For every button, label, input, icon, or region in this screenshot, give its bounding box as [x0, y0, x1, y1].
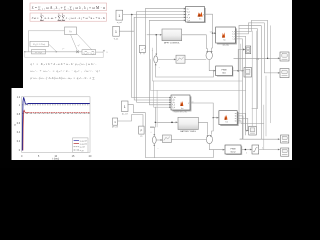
U3 input arrowheads: [169, 97, 171, 108]
x tick labels: [21, 155, 92, 158]
inport block In3: [122, 101, 129, 115]
U2 out wire 4: [235, 39, 242, 139]
PV measure block: [139, 46, 145, 55]
svg-text:μ·ωₐ₋(ωₐ₋)·Δₐʦ(ωₐʦ)ωₐ₋ωₚ = q: μ·ωₐ₋(ωₐ₋)·Δₐʦ(ωₐʦ)ωₐ₋ωₚ = qₚ¹ₐ ⁄σ₋ λ ∑: [31, 76, 95, 80]
leader line mid: [71, 35, 78, 51]
svg-text:2: 2: [246, 152, 247, 154]
leader line right: [77, 34, 93, 51]
wire F to H: [259, 148, 280, 151]
block 1/Js: [65, 27, 77, 35]
scope block B1: [244, 68, 252, 78]
legend box: [73, 138, 89, 152]
reference dashdot black line 2: [22, 112, 90, 114]
svg-text:aᵢλᵢωᵢ+: aᵢλᵢωᵢ+: [45, 16, 57, 20]
svg-text:w_ref: w_ref: [117, 22, 122, 24]
sum junction S4: [206, 135, 212, 144]
scope block A1: [245, 46, 250, 54]
MATLAB function block U4: [219, 111, 239, 126]
svg-text:T_m: T_m: [187, 20, 191, 22]
wire In1 to U1: [123, 14, 186, 16]
sum junction S2: [206, 51, 212, 60]
wire PWM1 out: [232, 70, 243, 72]
svg-text:P_b: P_b: [172, 104, 175, 106]
U2 out wire 1: [235, 20, 267, 58]
svg-text:i=1: i=1: [40, 20, 42, 22]
svg-text:V_d: V_d: [187, 11, 190, 13]
feedback path left: [28, 31, 64, 52]
left letterbox bar bottom: [0, 88, 12, 160]
branch to scope A1: [238, 49, 245, 71]
inport block In2: [113, 26, 120, 40]
bus wire v1: [132, 15, 171, 98]
svg-text:sn: sn: [235, 121, 237, 123]
svg-text:s: s: [107, 51, 108, 54]
display block C: [280, 52, 289, 61]
svg-text:BATTERY CHRG: BATTERY CHRG: [180, 130, 196, 133]
svg-text:Q_b: Q_b: [172, 107, 175, 109]
U2 out wire 2: [235, 23, 279, 74]
PI controller block bottom: [163, 135, 172, 143]
bus wire v3: [137, 12, 171, 103]
svg-text:0.4: 0.4: [17, 131, 21, 134]
multiply junction: [76, 51, 79, 54]
battery feed wire: [155, 107, 177, 123]
right letterbox bar: [292, 0, 300, 168]
saturation block F: [252, 145, 259, 154]
feedback loop top subsystem: [156, 71, 214, 77]
svg-text:fcn: fcn: [226, 121, 228, 123]
cross wire c1: [151, 59, 246, 90]
svg-text:dc_ref: dc_ref: [122, 113, 128, 115]
svg-text:INVERTER CTRL: INVERTER CTRL: [174, 112, 187, 114]
svg-text:q¹ = Kₚvʦ+Δₐωʦ+ωₐʦ·μₚ(ωₐ)ωʦ⁄₋: q¹ = Kₚvʦ+Δₐωʦ+ωₐʦ·μₚ(ωₐ)ωʦ⁄₋: [31, 62, 97, 66]
cross wire c2: [153, 48, 243, 107]
display block D: [280, 69, 289, 78]
svg-text:Gen: Gen: [222, 73, 226, 75]
PWM generator block top: [216, 66, 234, 77]
svg-text:fcn: fcn: [199, 18, 201, 20]
red response curve: [23, 110, 90, 150]
U2 out wire 3: [235, 36, 248, 130]
svg-text:ω_ref: ω_ref: [80, 146, 85, 149]
MPPT output wire: [182, 35, 208, 51]
svg-text:PWM: PWM: [222, 70, 227, 72]
MATLAB function block U2: [216, 27, 237, 44]
cross wire c3: [144, 35, 145, 48]
svg-text:278: 278: [256, 59, 259, 61]
svg-text:dP_ref: dP_ref: [112, 127, 118, 129]
wire into display C: [234, 57, 280, 59]
wire PI1 to S2: [185, 58, 206, 60]
U1 input wires: [134, 9, 185, 21]
display block G: [281, 135, 289, 143]
y tick labels: [17, 96, 21, 152]
svg-text:w_r: w_r: [187, 7, 190, 10]
wire S2 to PWM1: [209, 60, 215, 72]
U2 label: [210, 31, 229, 46]
label v*: [62, 48, 65, 51]
bus wire v2: [134, 17, 170, 100]
wire S3 to PI2: [157, 139, 163, 141]
MPPT gradient block: [162, 29, 182, 44]
svg-text:v_c: v_c: [232, 36, 235, 38]
svg-text:fcn: fcn: [223, 39, 225, 41]
equation box 1: [30, 3, 107, 11]
P measure block bottom: [139, 126, 144, 138]
battery output wire: [198, 122, 207, 134]
svg-text:i_ld: i_ld: [171, 100, 174, 102]
bus wire v4: [144, 9, 146, 35]
svg-text:PWM: PWM: [231, 148, 236, 150]
label q*: [78, 44, 81, 47]
handwritten equation line 1: [31, 62, 97, 66]
handwritten equation line 3: [31, 76, 95, 80]
left letterbox bar top: [0, 0, 23, 88]
wire In3 to bus: [128, 105, 145, 131]
bottom letterbox bar: [0, 160, 300, 168]
U4 out wires: [237, 113, 264, 139]
bus wire r4: [251, 31, 253, 126]
svg-text:fcn: fcn: [181, 108, 183, 110]
y axis label: [14, 123, 16, 127]
svg-text:0.8: 0.8: [17, 113, 21, 116]
plot axes box: [22, 97, 91, 153]
U3 output wire: [190, 103, 219, 134]
svg-text:j=1: j=1: [60, 20, 63, 22]
feedback loop bottom subsystem: [154, 150, 213, 158]
MATLAB function block U1: [186, 7, 206, 23]
svg-text:sa: sa: [235, 113, 237, 115]
controller block upper: [30, 41, 49, 46]
bus wire r3: [238, 26, 240, 124]
svg-text:v_b: v_b: [232, 34, 235, 36]
filter block: [82, 50, 96, 55]
svg-text:MPPT CONTROL: MPPT CONTROL: [164, 42, 181, 44]
svg-text:i=1: i=1: [57, 20, 59, 22]
svg-text:2: 2: [262, 148, 263, 150]
blue response curve: [22, 97, 90, 150]
svg-text:th_p: th_p: [187, 16, 190, 19]
bus wire v5: [150, 20, 171, 105]
x axis label: [52, 158, 59, 161]
svg-text:i_d: i_d: [232, 39, 235, 41]
output wire + arrow: [96, 50, 108, 54]
wire In4 to bus: [118, 115, 143, 127]
bus wire r1: [239, 26, 261, 140]
wire to G: [240, 138, 280, 140]
bus vertical extra 3: [270, 26, 272, 123]
svg-text:v_a: v_a: [232, 31, 235, 33]
svg-text:Kᵢ+Kₚs: Kᵢ+Kₚs: [35, 52, 42, 54]
svg-text:ω_g_est: ω_g_est: [80, 143, 88, 146]
svg-text:0.2: 0.2: [17, 140, 21, 143]
svg-text:J·ω̇ =: J·ω̇ =: [32, 16, 39, 20]
wire label 278: [256, 59, 259, 61]
svg-text:1: 1: [115, 30, 117, 34]
svg-text:1: 1: [124, 105, 126, 109]
svg-text:ω_g_ref: ω_g_ref: [80, 139, 87, 142]
svg-text:ω: ω: [14, 123, 16, 127]
main wire: [24, 51, 82, 53]
bus wire r2: [239, 29, 257, 109]
svg-text:1: 1: [118, 14, 120, 18]
svg-text:P: P: [141, 129, 143, 133]
sum junction S3: [150, 122, 159, 158]
wire PI2 to S4: [171, 138, 206, 140]
display block H: [281, 148, 289, 156]
svg-text:V_dc: V_dc: [172, 97, 176, 99]
U1 input arrowheads: [184, 8, 186, 21]
wire S4 to PWM2: [209, 144, 224, 151]
wire In2 branch: [119, 17, 134, 31]
wire S1 to PI1: [158, 59, 176, 61]
bus vertical bottom pair: [156, 91, 158, 128]
svg-text:Kₚ(1+1/Tₙs): Kₚ(1+1/Tₙs): [33, 43, 45, 46]
svg-text:i_qs: i_qs: [186, 14, 190, 16]
svg-text:i_lq: i_lq: [171, 102, 174, 104]
controller block lower: [32, 50, 46, 55]
MPPT feed wire: [147, 34, 162, 36]
feedback wire: [25, 52, 103, 58]
inport block In1: [116, 10, 123, 24]
inport block In4: [112, 118, 118, 129]
wire upper block to junction: [49, 44, 57, 52]
svg-text:sc: sc: [235, 118, 237, 120]
left drop wire bottom: [145, 131, 154, 158]
PWM generator block bottom: [225, 145, 242, 155]
scope block E: [249, 126, 257, 135]
bus vertical extra 1: [240, 44, 242, 71]
svg-text:cᵢⱼωλᵢλⱼ+ω²uₖ+uₐʦ: cᵢⱼωλᵢλⱼ+ω²uₖ+uₐʦ: [66, 16, 105, 20]
svg-text:abc2dq: abc2dq: [223, 45, 229, 47]
handwritten equation line 2: [31, 69, 100, 74]
wire into scope E: [246, 130, 248, 132]
bus wire r5: [255, 31, 257, 126]
MATLAB function block U3: [171, 95, 194, 114]
svg-text:ω_g: ω_g: [80, 150, 84, 152]
svg-text:0.6: 0.6: [17, 122, 21, 125]
svg-text:sb: sb: [235, 116, 237, 118]
PI controller block top: [176, 55, 185, 63]
battery gradient block: [178, 117, 198, 133]
U1 output wire: [205, 14, 216, 51]
bus wire r6: [263, 105, 265, 150]
wire PWM2 out: [241, 149, 252, 155]
svg-text:1.2: 1.2: [17, 96, 21, 99]
bus vertical extra 2: [265, 76, 267, 136]
background canvas: [0, 0, 300, 168]
svg-text:V_dc: V_dc: [114, 38, 119, 40]
sum junction S1: [152, 35, 161, 77]
equation box 2: [30, 13, 107, 22]
reference dashed black line 1: [22, 104, 90, 106]
